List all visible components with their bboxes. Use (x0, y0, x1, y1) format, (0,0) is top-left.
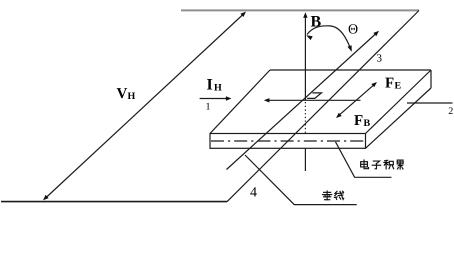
slab right thickness edge (430, 70, 432, 88)
label: chui-xian (perpendicular) text (323, 191, 332, 200)
svg-text:3: 3 (377, 53, 383, 65)
wire: top edge of inclined plane (gray) (181, 9, 419, 11)
wire: bottom edge of inclined plane (1, 201, 227, 203)
svg-text:4: 4 (250, 186, 257, 201)
I_H current arrow (line 1) (200, 98, 229, 100)
svg-text:Θ: Θ (348, 23, 358, 38)
leader line to dash-dot (electron accumulation) (336, 142, 392, 178)
leader line for "chui xian" label (245, 155, 357, 205)
svg-text:F: F (354, 113, 363, 129)
angle theta arc with arrows both ends (307, 26, 351, 51)
slab side bottom edge (366, 88, 432, 148)
svg-text:B: B (364, 118, 371, 129)
svg-text:H: H (128, 91, 136, 102)
svg-text:V: V (117, 86, 128, 102)
label: dian-zi-ji-lei (electron accumulation) text (361, 160, 369, 169)
electron drift arrow pointing left (266, 99, 361, 101)
svg-text:F: F (385, 76, 394, 92)
svg-text:H: H (214, 82, 222, 93)
slab centre dash-dot line (211, 140, 364, 142)
forces F_E / F_B opposite arrows (338, 83, 376, 116)
slab top face right edge (366, 70, 432, 134)
line 2 leader to side face (407, 102, 453, 104)
svg-text:1: 1 (206, 102, 211, 113)
dotted vertical (perpendicular) below centre (304, 102, 306, 134)
line 3: inclined direction line with arrow (227, 32, 378, 170)
solid vertical below slab (304, 148, 306, 171)
wire: V_H double-headed diagonal (left edge of plane) (45, 13, 245, 199)
svg-text:2: 2 (448, 106, 453, 117)
svg-text:I: I (207, 76, 213, 93)
zigzag plane-angle mark on line 3 (307, 93, 321, 99)
svg-text:E: E (395, 81, 402, 92)
slab top face left edge (210, 70, 270, 134)
slab top face back edge (270, 69, 431, 71)
wire: right edge of inclined plane (line 4) (227, 11, 419, 202)
vector B axis (solid) (304, 14, 306, 100)
slab front face outline (210, 134, 366, 149)
